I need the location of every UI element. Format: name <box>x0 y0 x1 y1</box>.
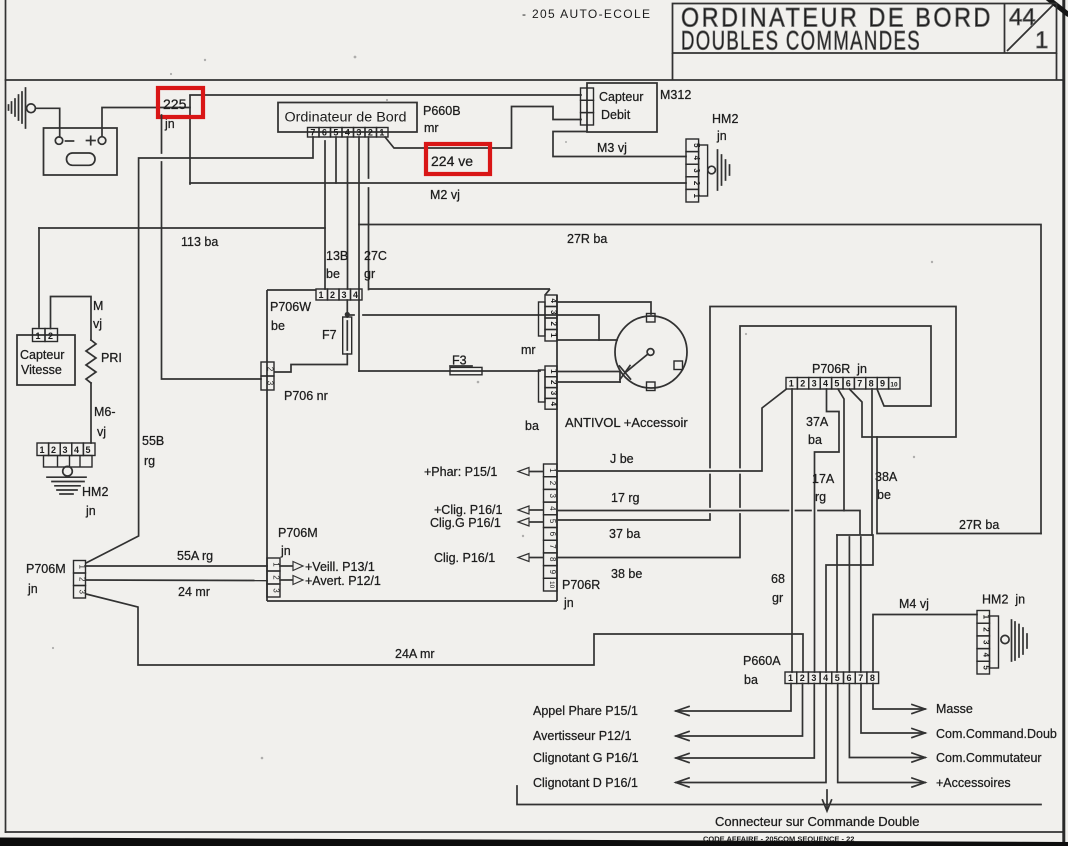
wire 38 be loop (pin9 around to Clig) <box>557 326 931 558</box>
svg-text:4: 4 <box>345 128 350 138</box>
svg-text:P706W: P706W <box>270 300 311 314</box>
svg-text:Appel Phare P15/1: Appel Phare P15/1 <box>533 704 638 718</box>
arrow Clig P16/1 <box>434 551 543 565</box>
wire M6- vj (resistor to HM2 strip) <box>90 383 92 443</box>
label Connecteur sur Commande Double <box>715 814 920 829</box>
svg-text:10: 10 <box>890 382 898 389</box>
connector P706R horizontal (10 cells) <box>786 378 900 390</box>
svg-text:HM2: HM2 <box>712 112 738 126</box>
svg-text:ba: ba <box>808 433 822 447</box>
svg-text:3: 3 <box>78 589 87 594</box>
bracket connecteur commande double <box>517 786 1041 811</box>
svg-text:M3 vj: M3 vj <box>597 141 627 155</box>
Capteur Vitesse box U3 <box>17 335 75 385</box>
svg-text:Com.Command.Doub: Com.Command.Doub <box>936 727 1057 741</box>
harness box P706 (outline) <box>267 289 557 601</box>
Ordinateur de Bord box U1 <box>278 103 417 133</box>
svg-text:24 mr: 24 mr <box>178 585 210 599</box>
title text ORDINATEUR DE BORD <box>681 3 993 33</box>
svg-text:HM2: HM2 <box>82 485 108 499</box>
label P660A ba <box>743 654 781 687</box>
svg-text:be: be <box>271 319 285 333</box>
svg-text:9: 9 <box>548 570 557 575</box>
svg-text:44: 44 <box>1009 4 1036 31</box>
connector P706M left (3 cells) <box>74 561 87 599</box>
svg-text:Capteur: Capteur <box>20 348 64 362</box>
svg-text:1: 1 <box>788 673 793 683</box>
title sheet number 44/1 <box>1009 4 1048 54</box>
svg-text:3: 3 <box>63 445 68 455</box>
svg-text:ba: ba <box>744 673 758 687</box>
label P706M jn (right) <box>278 526 318 558</box>
svg-text:27R ba: 27R ba <box>567 232 607 246</box>
svg-text:5: 5 <box>548 519 557 524</box>
wire battery plus to node 225 <box>102 108 190 137</box>
svg-text:jn: jn <box>563 596 574 610</box>
label 37A ba <box>806 415 829 447</box>
svg-text:+Veill. P13/1: +Veill. P13/1 <box>305 560 375 574</box>
label ba <box>525 419 539 433</box>
node junction dot F7 top <box>345 312 350 317</box>
svg-text:24A mr: 24A mr <box>395 647 435 661</box>
svg-text:J be: J be <box>610 452 634 466</box>
label P706W be <box>270 300 311 333</box>
connector HM2 bottom-right (5 cells) <box>977 611 999 675</box>
svg-text:P706R jn: P706R jn <box>812 362 867 376</box>
wire bridge rail to P660A cell4 <box>826 535 873 672</box>
svg-text:2: 2 <box>692 181 701 186</box>
arrow +Clig P16/1 <box>434 503 543 517</box>
label 37 ba <box>609 527 640 541</box>
wire Com.Command.Doub (P660A cell7) <box>861 684 1057 742</box>
wire Clignotant D (P660A cell4) <box>533 684 826 791</box>
label ANTIVOL +Accessoir <box>565 415 688 430</box>
svg-text:M: M <box>93 299 103 313</box>
svg-text:ba: ba <box>525 419 539 433</box>
svg-text:3: 3 <box>356 128 361 138</box>
battery B1 <box>44 128 118 175</box>
label P706M jn (left) <box>26 562 66 596</box>
connector M312 (3 cells on left of Capteur Debit) <box>581 88 594 125</box>
svg-text:5: 5 <box>86 445 91 455</box>
wire 13B be (pin4 to F7) <box>347 137 349 289</box>
svg-text:2: 2 <box>51 445 56 455</box>
svg-text:37 ba: 37 ba <box>609 527 640 541</box>
label 38 be <box>611 567 642 581</box>
svg-text:224 ve: 224 ve <box>431 153 473 169</box>
svg-text:Clig. P16/1: Clig. P16/1 <box>434 551 495 565</box>
label 17A rg <box>812 472 835 504</box>
wire 27R ba top (tee on pin3 riser, loop to right) <box>359 225 1041 534</box>
Capteur Debit box U2 <box>587 83 657 132</box>
scan bottom black strip <box>0 838 1068 846</box>
svg-text:3: 3 <box>812 379 817 389</box>
svg-text:9: 9 <box>880 379 885 389</box>
arrow +Phar P15/1 <box>424 465 543 479</box>
connector antivol lower (4 cells) <box>539 366 559 409</box>
label P660B mr <box>423 104 461 135</box>
svg-text:rg: rg <box>144 454 155 468</box>
label HM2 jn (top right) <box>712 112 738 143</box>
connector antivol upper (4 cells) <box>539 289 559 341</box>
svg-text:CODE AFFAIRE - 205COM SEQUENCE: CODE AFFAIRE - 205COM SEQUENCE - 22 <box>703 835 854 844</box>
svg-text:8: 8 <box>548 557 557 562</box>
connector P660B (7 pins) <box>308 128 389 138</box>
svg-text:27R ba: 27R ba <box>959 518 999 532</box>
ground G4 (HM2 bottom-right) <box>1001 620 1027 661</box>
svg-text:5: 5 <box>835 673 840 683</box>
svg-text:jn: jn <box>85 504 96 518</box>
svg-text:68: 68 <box>771 572 785 586</box>
svg-text:7: 7 <box>310 128 315 138</box>
svg-text:Com.Commutateur: Com.Commutateur <box>936 751 1042 765</box>
wire antivol strip cell1 out (y340) <box>557 339 599 341</box>
svg-text:Connecteur sur Commande Double: Connecteur sur Commande Double <box>715 814 920 829</box>
svg-text:8: 8 <box>869 379 874 389</box>
svg-text:F7: F7 <box>322 328 337 342</box>
svg-text:2: 2 <box>368 128 373 138</box>
title text DOUBLES COMMANDES <box>681 26 921 56</box>
label P706 nr <box>284 389 328 403</box>
svg-text:2: 2 <box>330 290 335 300</box>
wire F7 top to antivol strip (y315) <box>347 315 617 340</box>
svg-text:6: 6 <box>322 128 327 138</box>
wire 27R ba bottom <box>877 437 1041 534</box>
svg-text:4: 4 <box>823 673 828 683</box>
svg-text:17A: 17A <box>812 472 835 486</box>
svg-text:8: 8 <box>870 673 875 683</box>
svg-text:4: 4 <box>549 402 558 407</box>
svg-text:Debit: Debit <box>601 108 631 122</box>
label M4 vj <box>899 597 929 611</box>
svg-text:2: 2 <box>800 673 805 683</box>
label M312 <box>660 88 691 102</box>
wire 37A ba (pin4 to P660A cell3) <box>815 389 840 672</box>
ground G1 (battery, left) <box>9 88 36 128</box>
connector P660A (8 cells) <box>785 672 879 684</box>
svg-text:be: be <box>326 267 340 281</box>
svg-text:mr: mr <box>424 121 439 135</box>
svg-text:6: 6 <box>847 673 852 683</box>
svg-text:Capteur: Capteur <box>599 90 643 104</box>
label 17 rg <box>611 491 640 505</box>
highlight red box 225 <box>158 88 203 117</box>
connector HM2 top-right (5 cells) <box>686 139 708 202</box>
svg-text:Vitesse: Vitesse <box>21 363 62 377</box>
arrow +Veill <box>280 560 375 574</box>
svg-text:1: 1 <box>789 379 794 389</box>
wire F7 bottom to F3 rail <box>275 354 540 372</box>
label M2 vj <box>430 188 460 202</box>
wire J be (pin1 to P706R-v cell1) <box>557 389 787 471</box>
arrow Clig.G P16/1 <box>430 516 543 530</box>
svg-text:M312: M312 <box>660 88 691 102</box>
wire 27C gr (pin2 riser) <box>368 137 370 290</box>
svg-text:2: 2 <box>266 367 275 372</box>
svg-text:gr: gr <box>772 591 783 605</box>
svg-text:M2 vj: M2 vj <box>430 188 460 202</box>
svg-text:Ordinateur de Bord: Ordinateur de Bord <box>285 110 407 125</box>
label 24A mr <box>395 647 435 661</box>
svg-text:2: 2 <box>549 321 558 326</box>
svg-text:jn: jn <box>27 582 38 596</box>
svg-text:5: 5 <box>834 379 839 389</box>
svg-text:27C: 27C <box>364 249 387 263</box>
wire 55B rg (pin7) <box>86 137 313 563</box>
svg-text:1: 1 <box>548 468 557 473</box>
wire 224 ve (pin1 to Capteur Debit) <box>385 107 581 149</box>
svg-text:- 205 AUTO-ECOLE: - 205 AUTO-ECOLE <box>522 7 650 21</box>
svg-text:HM2 jn: HM2 jn <box>982 593 1025 607</box>
svg-text:3: 3 <box>266 381 275 386</box>
svg-text:225: 225 <box>163 96 187 112</box>
wire 24 mr <box>86 579 268 582</box>
wire 24A mr (P706M pin3 loop to P660A) <box>86 594 803 672</box>
svg-text:DOUBLES COMMANDES: DOUBLES COMMANDES <box>681 26 921 56</box>
label mr <box>521 343 536 357</box>
svg-text:P706M: P706M <box>278 526 318 540</box>
wire M4 vj (P660A cell8 to HM2) <box>873 615 977 673</box>
connector P706 nr (2 cells on left edge) <box>261 362 275 390</box>
svg-text:55A rg: 55A rg <box>177 549 213 563</box>
label 68 gr <box>771 572 785 605</box>
svg-text:Masse: Masse <box>936 702 973 716</box>
label 13B be <box>326 249 348 281</box>
svg-text:PRI: PRI <box>101 351 122 365</box>
ground G3 (HM2 left) <box>47 466 86 494</box>
header note 205 AUTO-ECOLE <box>522 7 650 21</box>
svg-text:6: 6 <box>846 379 851 389</box>
frame top rule <box>6 79 1065 81</box>
svg-text:P706M: P706M <box>26 562 66 576</box>
svg-text:55B: 55B <box>142 434 164 448</box>
svg-text:jn: jn <box>716 129 727 143</box>
highlight red box 224 <box>426 144 490 174</box>
svg-text:1: 1 <box>319 290 324 300</box>
frame right border <box>1062 0 1065 846</box>
label 55B rg <box>142 434 164 468</box>
svg-text:+Phar: P15/1: +Phar: P15/1 <box>424 465 497 479</box>
wire antivol lever feed (double) <box>557 372 620 383</box>
wire Appel Phare (P660A cell1) <box>533 684 791 719</box>
label HM2 jn (bottom right) <box>982 593 1025 607</box>
svg-text:38 be: 38 be <box>611 567 642 581</box>
label 55A rg <box>177 549 213 563</box>
wire antivol top terminal <box>557 302 651 314</box>
svg-text:M4 vj: M4 vj <box>899 597 929 611</box>
label M3 vj <box>597 141 627 155</box>
scan specks <box>52 56 933 760</box>
svg-text:P660B: P660B <box>423 104 461 118</box>
svg-text:7: 7 <box>548 544 557 549</box>
svg-text:2: 2 <box>48 331 53 341</box>
label 27C gr <box>364 249 387 281</box>
fuse F7 <box>343 317 352 354</box>
svg-text:vj: vj <box>93 317 102 331</box>
label M vj <box>93 299 103 331</box>
svg-text:5: 5 <box>333 128 338 138</box>
svg-text:gr: gr <box>364 267 375 281</box>
wire M2 vj <box>190 182 686 184</box>
svg-text:ANTIVOL +Accessoir: ANTIVOL +Accessoir <box>565 415 688 430</box>
label PRI <box>101 351 122 365</box>
wire Avertisseur (P660A cell2) <box>533 684 803 744</box>
svg-text:1: 1 <box>379 128 384 138</box>
node 225 riser <box>189 96 191 184</box>
svg-text:17 rg: 17 rg <box>611 491 640 505</box>
svg-text:6: 6 <box>548 532 557 537</box>
label 27R ba bottom <box>959 518 999 532</box>
svg-text:mr: mr <box>521 343 536 357</box>
label J be <box>610 452 634 466</box>
scan top-right corner mark <box>1046 0 1068 15</box>
arrow +Avert <box>280 574 381 588</box>
svg-text:4: 4 <box>353 290 358 300</box>
svg-text:Clignotant D P16/1: Clignotant D P16/1 <box>533 776 638 790</box>
connector HM2 left (5 cells) <box>37 443 95 467</box>
svg-text:10: 10 <box>548 581 555 589</box>
wire ground to battery minus <box>35 108 59 137</box>
wire bridge to P660A cell6 <box>848 537 850 672</box>
label HM2 jn (left) <box>82 485 108 518</box>
svg-text:P660A: P660A <box>743 654 781 668</box>
wire 27C gr (pin3 riser) <box>358 137 360 371</box>
ignition switch ANTIVOL S1 <box>615 314 687 391</box>
svg-text:13B: 13B <box>326 249 348 263</box>
wire 17 rg (+Clig rail) <box>557 510 844 512</box>
svg-text:3: 3 <box>549 310 558 315</box>
wire M3 vj <box>553 132 686 157</box>
connector P706R vertical (10 cells on box right edge) <box>544 464 558 591</box>
label 27R ba top <box>567 232 607 246</box>
svg-text:P706 nr: P706 nr <box>284 389 328 403</box>
wire 225 jn (to Capteur Debit pin 1) <box>190 94 581 96</box>
svg-text:F3: F3 <box>452 354 467 368</box>
svg-text:vj: vj <box>97 425 106 439</box>
svg-text:2: 2 <box>800 379 805 389</box>
svg-text:3: 3 <box>692 168 701 173</box>
svg-text:be: be <box>877 488 891 502</box>
svg-text:37A: 37A <box>806 415 829 429</box>
svg-text:+Clig. P16/1: +Clig. P16/1 <box>434 503 502 517</box>
label 113 ba <box>181 235 218 249</box>
wire Com.Commutateur (P660A cell6) <box>849 684 1041 766</box>
wire 17A rg (pin5 down to +Clig rail) <box>838 389 844 511</box>
label P706R jn (bottom) <box>562 578 600 610</box>
svg-text:Clignotant G P16/1: Clignotant G P16/1 <box>533 751 639 765</box>
svg-text:+Avert. P12/1: +Avert. P12/1 <box>305 574 381 588</box>
fuse F3 <box>450 366 482 375</box>
wire Masse (P660A cell8) <box>873 684 973 717</box>
label 224 ve <box>431 153 473 169</box>
svg-text:38A: 38A <box>875 470 898 484</box>
label F3 <box>452 354 467 368</box>
wire Clignotant G (P660A cell3) <box>533 684 814 766</box>
wire pin5 junction down to P660A cell7 <box>844 511 860 534</box>
svg-text:Avertisseur P12/1: Avertisseur P12/1 <box>533 729 631 743</box>
frame left border <box>5 0 7 832</box>
svg-text:4: 4 <box>692 156 701 161</box>
wire 38A be (pin8 down to bridge) <box>871 389 873 535</box>
label M6- vj <box>94 405 116 439</box>
svg-text:1: 1 <box>549 333 558 338</box>
title block box <box>673 4 1057 81</box>
svg-text:2: 2 <box>548 481 557 486</box>
wire 37 ba loop (pin6 around to Clig.G) <box>557 307 956 521</box>
svg-text:Clig.G P16/1: Clig.G P16/1 <box>430 516 501 530</box>
svg-text:3: 3 <box>342 290 347 300</box>
svg-text:jn: jn <box>280 544 291 558</box>
label 38A be <box>875 470 898 502</box>
svg-text:7: 7 <box>858 673 863 683</box>
svg-text:4: 4 <box>548 506 557 511</box>
wire +Accessoires (P660A cell5) <box>838 684 1011 791</box>
wire 55A rg <box>86 565 268 567</box>
svg-text:1: 1 <box>36 331 41 341</box>
svg-text:3: 3 <box>548 493 557 498</box>
frame bottom rule <box>6 831 1064 833</box>
svg-text:3: 3 <box>549 391 558 396</box>
svg-text:3: 3 <box>272 588 281 593</box>
wire pin5 stub <box>335 137 337 183</box>
ground G2 (HM2 top-right) <box>708 150 730 190</box>
svg-text:1: 1 <box>40 445 45 455</box>
connector Capteur Vitesse (2 cells) <box>33 329 58 342</box>
svg-text:4: 4 <box>74 445 79 455</box>
label 24 mr <box>178 585 210 599</box>
label 225 <box>163 96 187 131</box>
wire to P660A cell7 <box>860 537 862 672</box>
wire 113 ba (pin6 / Capteur Vitesse to P706W) <box>39 141 325 327</box>
svg-text:P706R: P706R <box>562 578 600 592</box>
svg-text:113 ba: 113 ba <box>181 235 218 249</box>
tiny footer CODE AFFAIRE <box>703 835 854 844</box>
wire M vj (pin2 to resistor) <box>51 297 92 341</box>
svg-text:7: 7 <box>857 379 862 389</box>
wire 68 gr (pin1 to P660A cell1) <box>791 389 793 672</box>
svg-text:3: 3 <box>811 673 816 683</box>
svg-text:rg: rg <box>815 490 826 504</box>
label F7 <box>322 328 337 342</box>
label P706R jn (top) <box>812 362 867 376</box>
svg-text:1: 1 <box>1035 27 1048 54</box>
connector P706M right (3 cells on box edge) <box>267 558 281 597</box>
svg-text:+Accessoires: +Accessoires <box>936 776 1011 790</box>
wire bridge to P660A cell5 <box>836 535 838 672</box>
svg-text:4: 4 <box>823 379 828 389</box>
wire strip c3 to F7 <box>346 300 348 317</box>
resistor PRI <box>86 340 96 383</box>
connector P706W (4 cells) <box>316 289 362 300</box>
svg-text:M6-: M6- <box>94 405 116 419</box>
wire 225b (Ordinateur feed down to P706 nr) <box>162 115 262 379</box>
